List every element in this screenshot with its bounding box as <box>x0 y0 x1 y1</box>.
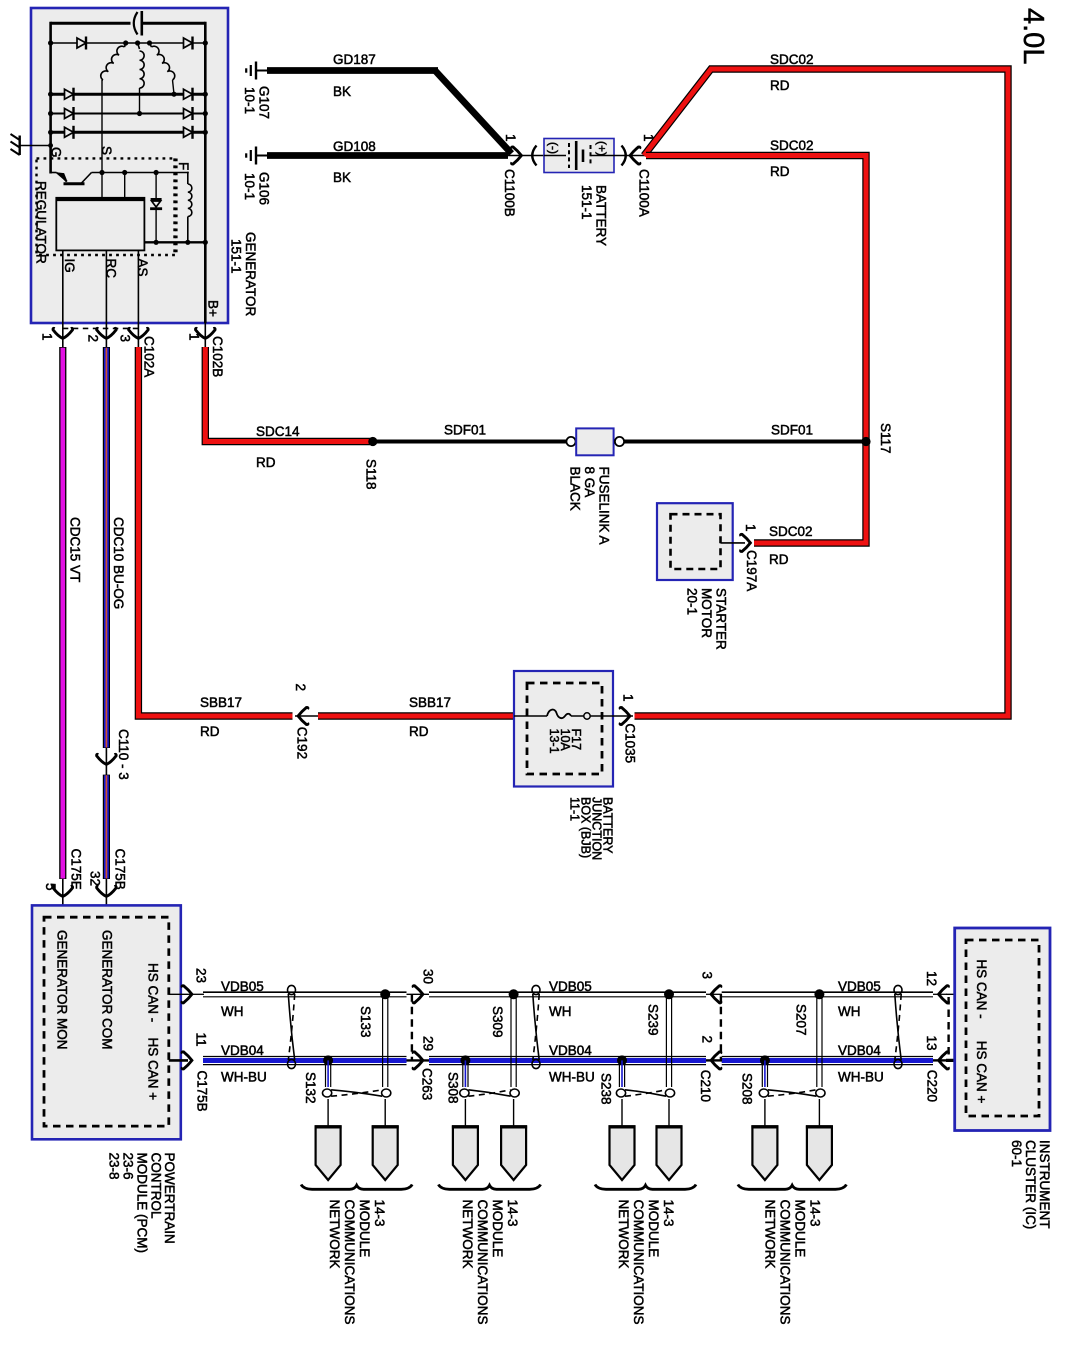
svg-text:GENERATOR COM: GENERATOR COM <box>100 930 115 1050</box>
ground chassis symbol at generator <box>19 136 21 156</box>
svg-text:151-1: 151-1 <box>579 185 594 220</box>
svg-text:GENERATOR: GENERATOR <box>243 232 258 317</box>
diode D6 right <box>184 89 193 99</box>
module network terminator right <box>373 1127 398 1181</box>
svg-text:C1100B: C1100B <box>502 169 517 217</box>
svg-text:S133: S133 <box>358 1006 373 1038</box>
powertrain control module PCM box <box>32 905 181 1139</box>
diode row 1 wire <box>51 42 206 44</box>
ground G106 <box>255 147 257 165</box>
svg-text:BLACK: BLACK <box>568 467 583 511</box>
module network terminator left <box>316 1127 341 1181</box>
svg-text:3: 3 <box>118 335 133 343</box>
svg-text:23: 23 <box>194 968 209 983</box>
svg-text:C220: C220 <box>925 1070 940 1102</box>
brace module communications network <box>438 1185 540 1190</box>
svg-text:COMMUNICATIONS: COMMUNICATIONS <box>631 1200 646 1325</box>
diode row 2 wire <box>51 93 206 96</box>
stator winding left <box>125 43 126 47</box>
starter motor box 20-1 <box>657 503 733 580</box>
twisted pair - module drop <box>460 1089 469 1097</box>
splice S239 <box>664 989 674 999</box>
module network terminator left <box>610 1127 635 1181</box>
svg-text:12: 12 <box>924 971 939 986</box>
svg-text:S238: S238 <box>599 1073 614 1105</box>
svg-text:G: G <box>49 147 64 158</box>
module communications network drop 3 <box>618 1060 620 1087</box>
svg-text:14-3: 14-3 <box>661 1200 676 1227</box>
connector C110-3 <box>105 748 107 775</box>
splice S118 <box>368 437 377 446</box>
svg-text:C175B: C175B <box>113 849 128 890</box>
splice S117 <box>861 437 870 446</box>
pin 13 C220 <box>939 1052 949 1069</box>
connector C210 dashed line <box>720 994 722 1060</box>
wire HS CAN plus stub PCM <box>169 1059 188 1062</box>
svg-text:(+): (+) <box>595 141 609 156</box>
svg-text:SDC02: SDC02 <box>770 52 814 67</box>
svg-text:S117: S117 <box>878 423 893 454</box>
twisted pair after PCM <box>288 985 296 994</box>
stator winding middle <box>138 43 140 49</box>
svg-text:1: 1 <box>187 333 202 341</box>
twisted pair mid <box>532 985 540 994</box>
pin 1 C197A <box>741 534 751 551</box>
right bus wire B+ <box>204 22 207 323</box>
svg-text:COMMUNICATIONS: COMMUNICATIONS <box>342 1200 357 1325</box>
brace module communications network <box>595 1185 696 1190</box>
svg-text:GENERATOR MON: GENERATOR MON <box>55 930 70 1050</box>
diode row 3 wire <box>51 113 206 115</box>
svg-text:B+: B+ <box>206 300 221 317</box>
wire CDC15 VT magenta <box>59 347 66 879</box>
svg-text:2: 2 <box>293 684 308 692</box>
wire CDC10 BU-OG upper <box>103 347 110 748</box>
svg-text:CDC10 BU-OG: CDC10 BU-OG <box>111 517 126 609</box>
svg-text:13: 13 <box>924 1036 939 1051</box>
pin 1 C1035 <box>620 707 630 724</box>
svg-text:IG: IG <box>62 259 77 273</box>
connector C263 dashed line <box>411 994 413 1060</box>
twisted pair - module drop <box>323 1089 332 1097</box>
brace module communications network <box>738 1185 847 1190</box>
svg-text:MODULE: MODULE <box>646 1200 661 1258</box>
twisted pair - module drop <box>616 1089 625 1097</box>
wire regulator bottom rail <box>144 241 205 243</box>
svg-text:13-1: 13-1 <box>547 729 561 754</box>
wire RC from regulator <box>105 250 107 323</box>
svg-text:CDC15 VT: CDC15 VT <box>68 517 83 582</box>
wire AS from regulator <box>137 250 139 323</box>
svg-text:VDB05: VDB05 <box>838 979 881 994</box>
splice S238 <box>617 1055 627 1065</box>
svg-text:14-3: 14-3 <box>372 1200 387 1227</box>
svg-text:HS CAN -: HS CAN - <box>974 959 989 1018</box>
svg-text:NETWORK: NETWORK <box>327 1200 342 1269</box>
svg-text:CONTROL: CONTROL <box>149 1153 164 1219</box>
diode row 4 wire <box>51 131 206 134</box>
left bus wire <box>49 22 52 174</box>
svg-text:S308: S308 <box>446 1072 461 1104</box>
svg-text:AS: AS <box>135 259 150 277</box>
svg-text:RD: RD <box>770 78 790 93</box>
svg-text:VDB04: VDB04 <box>549 1043 592 1058</box>
svg-text:S: S <box>99 146 114 155</box>
svg-text:5: 5 <box>43 883 58 891</box>
svg-text:COMMUNICATIONS: COMMUNICATIONS <box>475 1200 490 1325</box>
svg-text:23-8: 23-8 <box>107 1153 122 1180</box>
svg-text:VDB04: VDB04 <box>221 1043 264 1058</box>
svg-text:C102B: C102B <box>210 336 225 377</box>
svg-text:2: 2 <box>700 1036 715 1044</box>
svg-text:29: 29 <box>421 1036 436 1051</box>
splice S207 <box>814 989 824 999</box>
svg-text:NETWORK: NETWORK <box>460 1200 475 1269</box>
instrument cluster box IC 60-1 <box>955 928 1050 1131</box>
wire regulator top rail <box>92 172 189 174</box>
svg-text:C110 - 3: C110 - 3 <box>116 729 131 780</box>
svg-text:8 GA: 8 GA <box>582 467 597 498</box>
svg-text:GD108: GD108 <box>333 139 376 154</box>
svg-text:2: 2 <box>86 335 101 343</box>
wire SDC14 RD from generator B+ <box>205 347 371 442</box>
wire IG from regulator <box>62 250 64 323</box>
module network terminator left <box>752 1127 777 1181</box>
svg-text:MODULE: MODULE <box>793 1200 808 1258</box>
svg-text:NETWORK: NETWORK <box>616 1200 631 1269</box>
svg-text:C102A: C102A <box>142 336 157 377</box>
svg-text:14-3: 14-3 <box>808 1200 823 1227</box>
battery 151-1 <box>544 139 614 173</box>
connector C220 dashed line <box>947 997 949 1056</box>
fuselink ring left <box>566 437 575 446</box>
svg-text:WH-BU: WH-BU <box>221 1070 267 1085</box>
diode D3 left <box>65 109 74 119</box>
svg-text:HS CAN -: HS CAN - <box>146 963 161 1022</box>
capacitor in generator <box>134 12 138 35</box>
svg-text:BATTERY: BATTERY <box>594 185 609 246</box>
svg-text:S118: S118 <box>364 459 379 490</box>
svg-text:WH-BU: WH-BU <box>838 1070 884 1085</box>
svg-text:MODULE: MODULE <box>357 1200 372 1258</box>
module network terminator right <box>807 1127 832 1181</box>
svg-text:WH-BU: WH-BU <box>549 1070 595 1085</box>
pin 11 C175B <box>182 1052 192 1069</box>
svg-text:RD: RD <box>769 552 789 567</box>
svg-text:WH: WH <box>838 1004 861 1019</box>
svg-text:VDB05: VDB05 <box>549 979 592 994</box>
svg-text:C1035: C1035 <box>623 723 638 763</box>
connector C102A pins <box>62 323 64 348</box>
svg-text:HS CAN +: HS CAN + <box>974 1041 989 1104</box>
connector C192 pin 2 <box>295 715 318 717</box>
wire SBB17 RD to BJB <box>318 712 514 719</box>
wire stub to regulator box <box>124 173 126 199</box>
svg-text:RD: RD <box>409 724 429 739</box>
svg-text:S132: S132 <box>303 1072 318 1104</box>
svg-text:151-1: 151-1 <box>229 239 244 274</box>
svg-text:(-): (-) <box>547 142 561 154</box>
svg-text:MODULE (PCM): MODULE (PCM) <box>135 1153 150 1254</box>
wire ground to generator G <box>20 145 51 147</box>
svg-text:SBB17: SBB17 <box>409 695 451 710</box>
svg-text:11-1: 11-1 <box>568 797 582 821</box>
svg-text:STARTER: STARTER <box>714 588 729 650</box>
regulator dotted box <box>37 158 177 255</box>
pin 12 C220 <box>939 986 949 1003</box>
svg-text:RD: RD <box>256 455 276 470</box>
brace module communications network <box>301 1185 412 1190</box>
svg-text:32: 32 <box>88 871 103 886</box>
module network terminator right <box>657 1127 682 1181</box>
svg-text:1: 1 <box>40 333 55 341</box>
svg-text:C175E: C175E <box>69 849 84 890</box>
svg-text:RD: RD <box>770 164 790 179</box>
wire CDC10 into PCM <box>105 879 107 918</box>
pin 1 C102A <box>53 328 73 338</box>
svg-text:SBB17: SBB17 <box>200 695 242 710</box>
wire VDB04 WH-BU bus segments <box>203 1056 407 1058</box>
splice S133 <box>380 989 390 999</box>
svg-text:S239: S239 <box>646 1004 661 1036</box>
svg-text:23-6: 23-6 <box>121 1153 136 1180</box>
wire SDC02 RD battery to top right and down to BJB <box>635 69 1009 716</box>
wire stub IC HS CAN plus <box>946 1059 966 1062</box>
svg-text:14-3: 14-3 <box>505 1200 520 1227</box>
svg-text:1: 1 <box>621 694 636 702</box>
dotted line F <box>173 158 175 255</box>
svg-text:C210: C210 <box>698 1070 713 1102</box>
svg-text:WH: WH <box>549 1004 572 1019</box>
pin 23 C175B <box>182 986 192 1003</box>
svg-text:4.0L: 4.0L <box>1017 8 1049 64</box>
svg-text:MODULE: MODULE <box>490 1200 505 1258</box>
pin 32 C175B <box>97 886 117 896</box>
field winding coil F <box>187 172 189 184</box>
svg-text:10-1: 10-1 <box>242 87 257 114</box>
generator box outline 151-1 <box>31 8 228 323</box>
regulator IC box <box>56 198 144 251</box>
module network terminator left <box>453 1127 478 1181</box>
svg-text:S207: S207 <box>794 1004 809 1036</box>
module communications network drop 1 <box>325 1060 327 1087</box>
diode D1 left top <box>77 38 86 48</box>
splice S309 <box>509 989 519 999</box>
pin 2 C102A <box>97 328 117 338</box>
splice S308 <box>460 1055 470 1065</box>
svg-text:SDF01: SDF01 <box>771 423 813 438</box>
connector C1100B <box>508 155 544 157</box>
diode D2 left <box>65 89 74 99</box>
splice S132 <box>323 1055 333 1065</box>
wire S to regulator <box>101 80 103 199</box>
svg-text:S309: S309 <box>490 1006 505 1038</box>
wire VDB04 bridge stubs <box>407 1059 430 1061</box>
svg-text:1: 1 <box>503 134 518 142</box>
twisted pair before IC <box>894 985 902 994</box>
svg-text:RD: RD <box>200 724 220 739</box>
diode D8 right <box>184 127 193 137</box>
wire SBB17 RD from generator pin3 <box>138 347 292 716</box>
svg-text:COMMUNICATIONS: COMMUNICATIONS <box>778 1200 793 1325</box>
svg-text:C263: C263 <box>420 1068 435 1100</box>
svg-text:CLUSTER (IC): CLUSTER (IC) <box>1023 1140 1038 1229</box>
svg-text:C192: C192 <box>295 727 310 759</box>
twisted pair - module drop <box>759 1089 768 1097</box>
svg-text:HS CAN +: HS CAN + <box>146 1038 161 1101</box>
svg-text:G106: G106 <box>257 172 272 205</box>
svg-text:MOTOR: MOTOR <box>699 588 714 638</box>
svg-text:30: 30 <box>421 969 436 984</box>
wire SDC02 RD battery to S117 to starter <box>646 156 866 544</box>
svg-text:WH: WH <box>221 1004 244 1019</box>
wire VDB05 bridge stubs <box>188 993 204 995</box>
module communications network drop 4 <box>761 1060 763 1087</box>
pin 29 C263 <box>413 1052 423 1069</box>
svg-text:SDF01: SDF01 <box>444 423 486 438</box>
svg-text:SDC02: SDC02 <box>769 524 813 539</box>
connector C1100A <box>614 155 646 157</box>
wire SDF01 right segment <box>624 440 866 444</box>
wire stub starter <box>721 542 746 544</box>
wire CDC15 into PCM <box>62 879 64 918</box>
module communications network drop 2 <box>462 1060 464 1087</box>
fuselink A box <box>576 428 613 455</box>
dashed connector bracket C102A <box>63 327 139 329</box>
fuselink ring right <box>615 437 624 446</box>
pin 1 C102B <box>196 328 216 338</box>
transistor Q1 regulator <box>51 172 57 174</box>
pin 3 C210 <box>711 986 721 1003</box>
svg-text:FUSELINK A: FUSELINK A <box>597 467 612 545</box>
svg-text:G107: G107 <box>257 86 272 119</box>
battery junction box BJB 11-1 <box>514 671 613 787</box>
diode D7 right <box>184 109 193 119</box>
wire stub IC HS CAN minus <box>946 993 966 995</box>
wire HS CAN minus stub PCM <box>169 993 188 995</box>
wire VDB05 WH bus segments <box>203 991 407 993</box>
svg-text:1: 1 <box>743 524 758 532</box>
svg-text:C197A: C197A <box>744 550 759 591</box>
splice S208 <box>760 1055 770 1065</box>
svg-text:INSTRUMENT: INSTRUMENT <box>1037 1140 1052 1229</box>
svg-text:SDC02: SDC02 <box>770 138 814 153</box>
svg-text:3: 3 <box>700 972 715 980</box>
svg-text:F: F <box>176 162 191 170</box>
module network terminator right <box>501 1127 526 1181</box>
svg-text:BK: BK <box>333 84 351 99</box>
svg-text:VDB04: VDB04 <box>838 1043 881 1058</box>
wire SDF01 left segment <box>373 440 567 444</box>
svg-text:BK: BK <box>333 170 351 185</box>
svg-text:RC: RC <box>104 259 119 279</box>
pin 30 C263 <box>413 986 423 1003</box>
svg-text:VDB05: VDB05 <box>221 979 264 994</box>
svg-text:10-1: 10-1 <box>242 173 257 200</box>
junction dots on bus <box>48 40 53 45</box>
wire CDC10 BU-OG lower <box>103 775 110 879</box>
diode D4 left <box>65 127 74 137</box>
pin 2 C210 <box>711 1052 721 1069</box>
ground G107 <box>255 62 257 80</box>
diode in regulator <box>155 173 157 243</box>
svg-text:C175B: C175B <box>195 1070 210 1111</box>
diode D5 right top <box>184 38 193 48</box>
pin 3 C102A <box>129 328 149 338</box>
svg-text:60-1: 60-1 <box>1009 1140 1024 1167</box>
svg-text:GD187: GD187 <box>333 52 376 67</box>
stator winding right <box>150 43 152 47</box>
svg-text:REGULATOR: REGULATOR <box>34 181 49 264</box>
svg-text:SDC14: SDC14 <box>256 424 300 439</box>
top bus wire with capacitor <box>51 22 131 25</box>
pin 5 C175E <box>53 886 73 896</box>
svg-text:C1100A: C1100A <box>637 169 652 217</box>
wire GD108 BK <box>267 152 508 159</box>
svg-text:11: 11 <box>194 1033 209 1047</box>
wire GD187 BK <box>267 67 438 74</box>
svg-text:S208: S208 <box>740 1073 755 1105</box>
svg-text:20-1: 20-1 <box>685 588 700 615</box>
svg-text:NETWORK: NETWORK <box>763 1200 778 1269</box>
fuse F17 10A <box>514 715 547 717</box>
